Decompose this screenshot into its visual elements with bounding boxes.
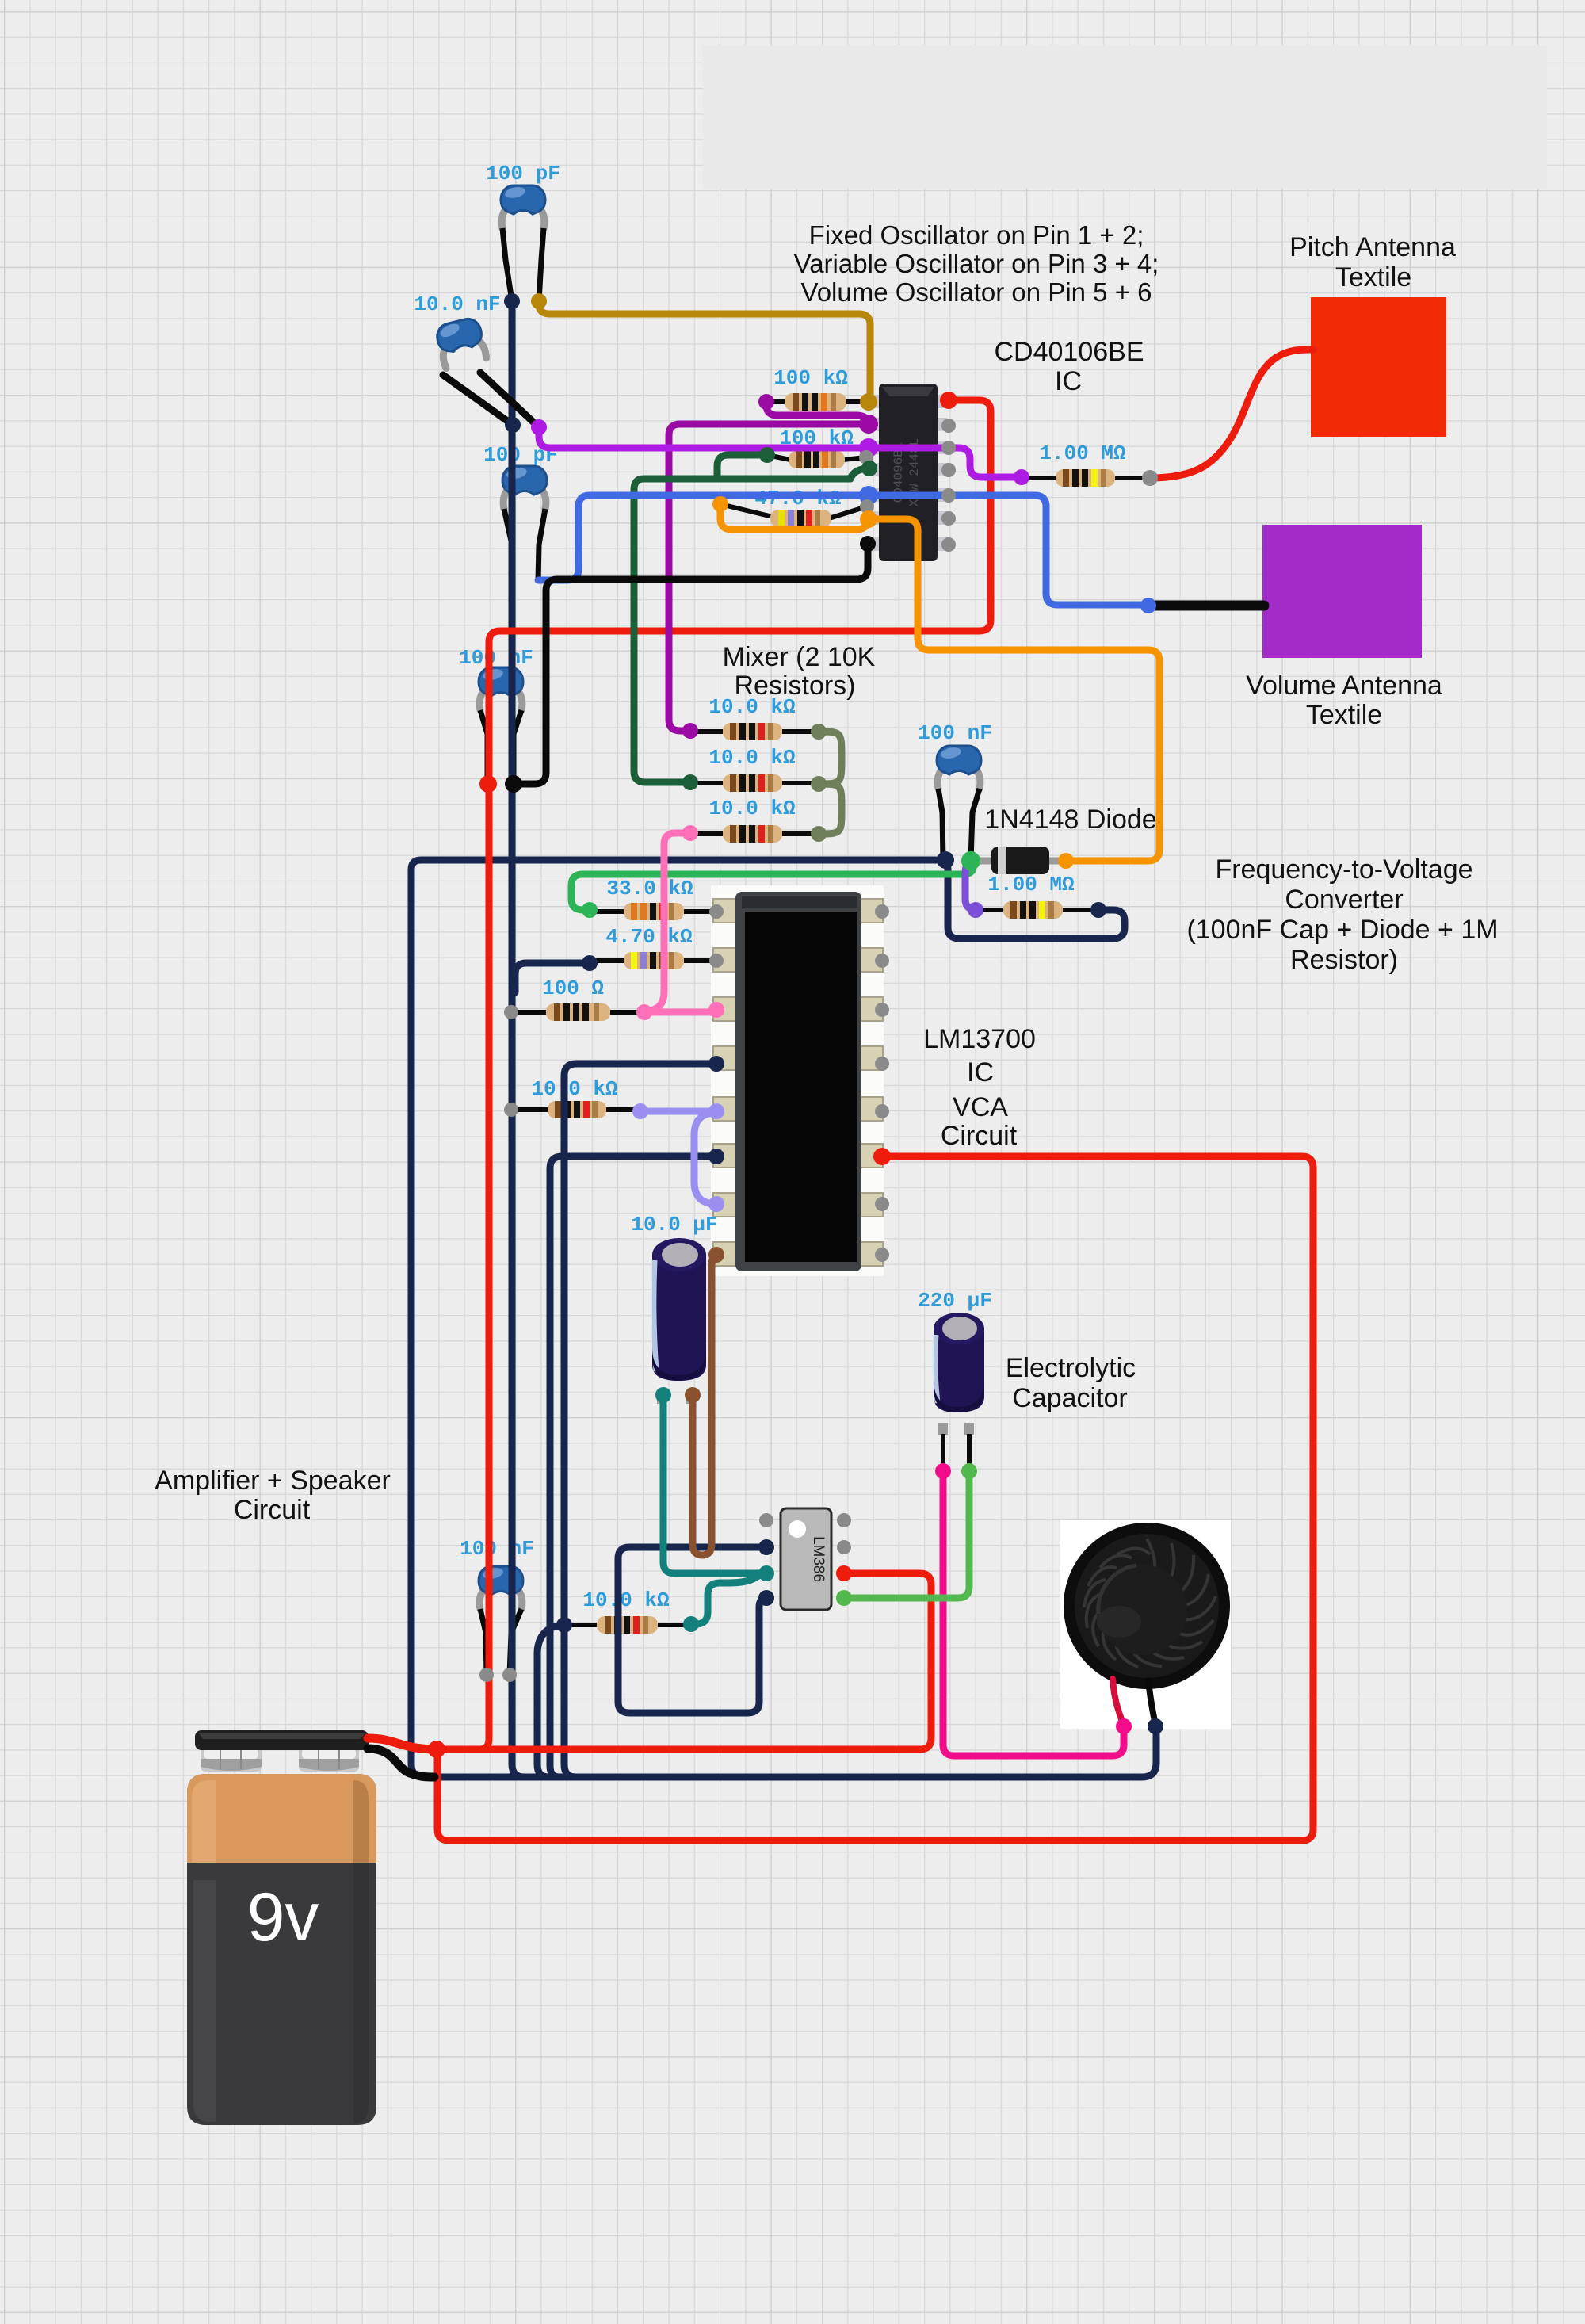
svg-text:10.0 nF: 10.0 nF bbox=[414, 292, 500, 316]
node LM13700 out red bbox=[873, 1148, 891, 1165]
wire pink 100ohm to LM13700 pin3 bbox=[644, 1009, 716, 1016]
svg-text:100 pF: 100 pF bbox=[486, 162, 560, 185]
node 47k right gray bbox=[860, 499, 874, 514]
svg-text:Mixer (2 10K: Mixer (2 10K bbox=[723, 642, 876, 672]
olive connector mixer R2-R3 right bbox=[819, 784, 842, 834]
node R2 right gray bbox=[859, 450, 873, 464]
node mixer R1 left purple bbox=[682, 723, 698, 739]
node LM13700 pin4 navy bbox=[708, 1056, 724, 1072]
resistor R5 10k mixer1 bbox=[690, 723, 819, 740]
wire black 10nF diagonal right bbox=[480, 373, 539, 427]
IC U1 CD40106BE bbox=[869, 384, 947, 561]
node 4.7k left navy bbox=[582, 955, 598, 971]
node 10uF right brown bbox=[685, 1387, 701, 1403]
electrolytic C8 220uF bbox=[934, 1313, 984, 1471]
diode D1 1N4148 bbox=[971, 847, 1066, 874]
node mixer R1 right olive bbox=[811, 724, 827, 740]
wire lavender LM13700 pin5-pin7 U bbox=[694, 1113, 716, 1204]
node 47k left orange bbox=[712, 496, 728, 512]
pitch antenna textile bbox=[1311, 297, 1446, 437]
svg-text:Resistors): Resistors) bbox=[734, 671, 855, 701]
svg-text:Textile: Textile bbox=[1335, 262, 1411, 292]
wire pink mixer R3 to 100ohm bbox=[644, 833, 690, 1012]
wire red bottom loop to LM13700 bbox=[437, 1156, 1313, 1840]
svg-text:220 µF: 220 µF bbox=[918, 1289, 992, 1313]
node 33k right gray bbox=[709, 904, 724, 919]
node LM13700 pin5 lavender bbox=[708, 1103, 724, 1119]
node F2V green junction bbox=[961, 851, 980, 870]
node decoupling black bbox=[505, 775, 522, 793]
node LM386 pins bbox=[759, 1513, 773, 1527]
svg-text:100 nF: 100 nF bbox=[459, 646, 533, 670]
svg-text:1N4148 Diode: 1N4148 Diode bbox=[984, 805, 1156, 835]
svg-text:100 kΩ: 100 kΩ bbox=[773, 366, 848, 390]
wire red V+ from CD40106 pin14 down left rail bbox=[479, 400, 991, 1749]
svg-text:Fixed Oscillator on Pin 1 + 2;: Fixed Oscillator on Pin 1 + 2; bbox=[809, 220, 1144, 250]
node LM13700 pin8 brown bbox=[708, 1247, 724, 1263]
resistor R13 10k amplifier bbox=[566, 1616, 691, 1634]
speaker SP1 bbox=[1060, 1520, 1231, 1729]
node mixer R3 left pink bbox=[682, 825, 698, 841]
wire green LM386 to 220uF bbox=[844, 1471, 969, 1598]
node decoupling red bbox=[479, 775, 497, 793]
capacitor C2 10nF bbox=[434, 316, 487, 369]
svg-text:100 nF: 100 nF bbox=[918, 721, 992, 745]
node pin14 red bbox=[940, 392, 957, 409]
svg-text:1.00 MΩ: 1.00 MΩ bbox=[987, 873, 1074, 896]
battery 9V bbox=[187, 1730, 376, 2125]
capacitor C1 100pF top bbox=[501, 185, 545, 301]
svg-text:Capacitor: Capacitor bbox=[1012, 1383, 1128, 1413]
wire brown 10uF to LM13700 pin8 bbox=[693, 1255, 716, 1555]
resistor R11 10k VCA bbox=[511, 1101, 640, 1118]
node cap1/navy junction bbox=[504, 293, 520, 309]
node diode right orange bbox=[1058, 853, 1074, 869]
top banner bbox=[703, 45, 1547, 189]
node 220uF right green bbox=[961, 1463, 977, 1479]
resistor R9 4.7k bbox=[590, 952, 716, 969]
wire black 10nF diagonal left bbox=[443, 375, 513, 425]
svg-text:IC: IC bbox=[1055, 366, 1082, 396]
wire purple pin2 to mixer R1 bbox=[669, 424, 869, 731]
node mixer R2 left green bbox=[682, 774, 698, 790]
wire orange pin6 to diode bbox=[869, 519, 1159, 861]
captions bbox=[155, 220, 1498, 1525]
node amp cap gray stubs bbox=[479, 1668, 494, 1682]
svg-text:9v: 9v bbox=[247, 1879, 319, 1955]
node pin5 blue bbox=[859, 486, 878, 505]
node 10uF left teal bbox=[655, 1387, 671, 1403]
node 100ohm left gray bbox=[504, 1005, 518, 1019]
svg-text:10.0 kΩ: 10.0 kΩ bbox=[582, 1588, 669, 1612]
node 1M2 right navy bbox=[1090, 902, 1106, 918]
resistor R10 100ohm bbox=[511, 1003, 644, 1021]
svg-text:Circuit: Circuit bbox=[941, 1121, 1018, 1151]
svg-text:33.0 kΩ: 33.0 kΩ bbox=[606, 877, 693, 900]
olive connector mixer R1-R2 right bbox=[819, 732, 842, 784]
node pin4 green bbox=[861, 461, 877, 476]
node 10k right lavender bbox=[632, 1103, 648, 1119]
svg-text:LM386: LM386 bbox=[810, 1536, 827, 1582]
wire gold cap1 to CD40106 pin1 bbox=[539, 301, 870, 402]
electrolytic C7 10uF bbox=[652, 1238, 706, 1404]
wire red battery plus bus to LM386 bbox=[437, 1573, 931, 1749]
wire navy branch from 10k junction to bus bbox=[537, 1625, 564, 1777]
node 10nF right violet bbox=[531, 419, 547, 435]
svg-text:10.0 kΩ: 10.0 kΩ bbox=[708, 746, 795, 770]
svg-text:Variable Oscillator on Pin 3 +: Variable Oscillator on Pin 3 + 4; bbox=[794, 249, 1159, 278]
value labels bbox=[414, 162, 1125, 1612]
capacitor C3 100pF second bbox=[502, 466, 547, 580]
resistor R1 100k (osc1 feedback) bbox=[766, 393, 868, 411]
wire lavender 10k to LM13700 pin5 bbox=[640, 1108, 716, 1115]
node cap1/gold junction bbox=[531, 293, 547, 309]
wire navy 4.7k left to rail bbox=[515, 963, 590, 992]
resistor R7 10k mixer3 bbox=[690, 825, 819, 843]
wire teal 10k-amp to LM386 pin3 bbox=[691, 1573, 766, 1624]
wire navy net-B horizontal to 1M ground bbox=[411, 860, 945, 1777]
node speaker minus navy bbox=[1148, 1718, 1163, 1734]
svg-text:Pitch Antenna: Pitch Antenna bbox=[1289, 232, 1456, 262]
resistor R12 1.00M (F2V) bbox=[980, 901, 1098, 919]
wire deep-pink 220uF to speaker bbox=[943, 1471, 1124, 1756]
node amp 10k left navy bbox=[556, 1617, 572, 1633]
resistor R3 47k (osc3 feedback) bbox=[720, 504, 867, 527]
wire green-medium 33k to diode junction bbox=[571, 862, 973, 910]
svg-text:Volume Antenna: Volume Antenna bbox=[1246, 671, 1442, 701]
svg-text:Resistor): Resistor) bbox=[1290, 945, 1398, 975]
resistor R8 33k bbox=[590, 903, 716, 920]
node LM13700 pin3 pink bbox=[708, 1002, 724, 1018]
resistor R6 10k mixer2 bbox=[690, 774, 819, 792]
wire royal-blue cap3 to pin5 to volume antenna bbox=[538, 495, 1148, 605]
volume antenna textile bbox=[1262, 525, 1422, 658]
svg-text:1.00 MΩ: 1.00 MΩ bbox=[1039, 441, 1125, 465]
svg-text:Volume Oscillator on Pin 5 + 6: Volume Oscillator on Pin 5 + 6 bbox=[801, 277, 1152, 307]
svg-text:Amplifier + Speaker: Amplifier + Speaker bbox=[155, 1466, 391, 1496]
svg-text:10.0 kΩ: 10.0 kΩ bbox=[531, 1077, 617, 1101]
capacitor C4 100nF decoupling left bbox=[479, 667, 523, 783]
svg-text:(100nF Cap + Diode + 1M: (100nF Cap + Diode + 1M bbox=[1186, 915, 1498, 945]
svg-text:Converter: Converter bbox=[1285, 885, 1403, 915]
node 10nF left on rail bbox=[505, 417, 521, 433]
wire navy ground bus bottom bbox=[432, 1726, 1156, 1777]
wire navy LM13700 pin6 to bus bbox=[550, 1156, 716, 1777]
node R2 left green bbox=[759, 447, 775, 463]
node 33k left green bbox=[582, 902, 598, 918]
node 1M right gray bbox=[1142, 470, 1158, 486]
svg-text:10.0 kΩ: 10.0 kΩ bbox=[708, 797, 795, 820]
node pin2 purple bbox=[859, 415, 878, 434]
resistor R4 1.00M (pitch antenna) bbox=[1022, 469, 1150, 487]
svg-text:IC: IC bbox=[967, 1057, 994, 1087]
node F2V ground navy bbox=[937, 851, 954, 869]
wire navy LM13700 pin4 to junction bbox=[564, 1064, 716, 1777]
wire red battery positive lead bbox=[368, 1738, 437, 1749]
wire teal 10uF to LM386 pin3 bbox=[663, 1395, 766, 1573]
capacitor C5 100nF F2V bbox=[937, 746, 981, 861]
node 4.7k right gray bbox=[709, 954, 724, 968]
node R1 right gold pin1 bbox=[860, 393, 877, 411]
node LM13700 pin7 lavender bbox=[708, 1196, 724, 1212]
wire orange 47k left to pin6 bbox=[720, 504, 869, 529]
resistor R2 100k (osc2 feedback) bbox=[767, 451, 866, 468]
node CD40106 right gray pins bbox=[941, 419, 956, 552]
node LM13700 pin6 navy bbox=[708, 1149, 724, 1164]
node 1M left violet bbox=[1014, 469, 1029, 485]
node speaker plus pink bbox=[1116, 1718, 1132, 1734]
wire black battery negative lead bbox=[368, 1749, 434, 1777]
node mixer R2 right olive bbox=[811, 776, 827, 792]
wire purple R1 left to pin2 bbox=[766, 402, 869, 424]
svg-text:100 nF: 100 nF bbox=[460, 1537, 534, 1561]
capacitor C6 100nF amplifier bbox=[479, 1566, 523, 1675]
node 1M2 left violet-med bbox=[968, 902, 983, 918]
node pin3 violet bbox=[859, 438, 878, 457]
node mixer R3 right olive bbox=[811, 826, 827, 842]
node volume antenna blue bbox=[1140, 598, 1156, 613]
IC U2 LM13700 bbox=[711, 885, 884, 1276]
node battery plus red bbox=[428, 1741, 445, 1758]
wire black volume antenna lead bbox=[1148, 601, 1264, 611]
node LM13700 right gray pins bbox=[875, 904, 889, 1262]
node 10k left gray bbox=[504, 1103, 518, 1117]
svg-text:Electrolytic: Electrolytic bbox=[1006, 1353, 1136, 1383]
wire navy LM386 pin2-pin4 U bbox=[618, 1547, 766, 1713]
svg-text:LM13700: LM13700 bbox=[923, 1024, 1036, 1054]
node amp 10k right teal bbox=[683, 1616, 699, 1632]
wire red S-curve to pitch antenna bbox=[1150, 350, 1313, 478]
wire violet 10nF to pin3 to 1M bbox=[539, 427, 1022, 477]
wire violet-medium diode junction to 1M2 bbox=[965, 861, 980, 910]
node pin6 orange bbox=[860, 510, 877, 528]
svg-text:Frequency-to-Voltage: Frequency-to-Voltage bbox=[1215, 854, 1472, 885]
wire dark-green pin4 to mixer R2 bbox=[634, 468, 869, 782]
svg-text:Textile: Textile bbox=[1306, 700, 1382, 730]
node 220uF left pink bbox=[935, 1463, 951, 1479]
wire navy hook 1M right to ground dot bbox=[945, 860, 1125, 938]
IC U3 LM386 bbox=[781, 1508, 831, 1610]
svg-text:4.70 kΩ: 4.70 kΩ bbox=[605, 925, 692, 949]
svg-text:Circuit: Circuit bbox=[234, 1495, 311, 1525]
svg-text:VCA: VCA bbox=[953, 1092, 1008, 1122]
node pin7 black bbox=[860, 536, 876, 552]
node R1 left purple bbox=[758, 394, 774, 410]
svg-text:CD40106BE: CD40106BE bbox=[994, 337, 1144, 367]
wire navy ground rail left bbox=[512, 301, 525, 1777]
wire black CD40106 pin7 to ground bbox=[514, 544, 868, 784]
svg-text:100 Ω: 100 Ω bbox=[542, 977, 604, 1000]
svg-text:10.0 µF: 10.0 µF bbox=[631, 1213, 717, 1237]
node 100ohm right pink bbox=[636, 1004, 652, 1020]
wire dark-green R2 branch bbox=[717, 455, 767, 479]
